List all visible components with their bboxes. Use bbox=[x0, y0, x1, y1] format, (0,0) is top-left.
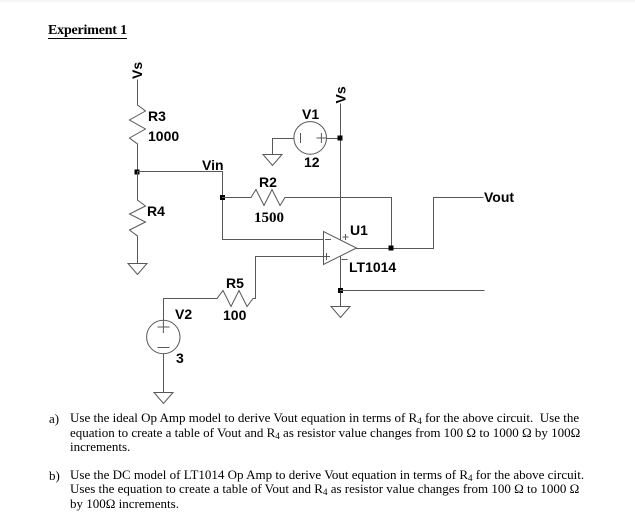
net label Vin bbox=[202, 157, 224, 173]
wire R5 left to V2 top bbox=[164, 299, 218, 321]
wire non-inverting input run bbox=[256, 257, 324, 299]
svg-text:U1: U1 bbox=[350, 222, 368, 238]
svg-text:Vs: Vs bbox=[129, 62, 145, 79]
value 1000 bbox=[148, 128, 179, 144]
wire Vs net vertical to op-amp V+ pin bbox=[340, 104, 342, 240]
svg-text:V1: V1 bbox=[302, 106, 319, 122]
resistor R5 bbox=[217, 291, 256, 307]
paragraph b) text bbox=[70, 468, 584, 511]
svg-text:Vs: Vs bbox=[333, 86, 349, 103]
net label Vs (right, rotated) bbox=[333, 86, 349, 103]
svg-text:R2: R2 bbox=[259, 174, 277, 190]
svg-text:100: 100 bbox=[223, 307, 247, 323]
node E junction dot bbox=[338, 288, 343, 293]
wire feedback down to output node bbox=[391, 198, 393, 249]
wire output up to Vout level bbox=[433, 198, 435, 249]
node D junction dot at output/feedback bbox=[389, 246, 394, 251]
op-amp V- pin marker bbox=[342, 259, 347, 261]
resistor R2 bbox=[251, 190, 285, 206]
ground below R4 bbox=[128, 264, 147, 275]
op-amp non-inverting input marker bbox=[324, 254, 330, 260]
ground below V2 bbox=[154, 393, 173, 404]
op-amp inverting input marker bbox=[326, 239, 331, 241]
paragraph a) text bbox=[70, 411, 580, 455]
svg-text:R5: R5 bbox=[226, 275, 244, 291]
resistor R3 bbox=[130, 105, 146, 144]
label R2 bbox=[259, 174, 277, 190]
wire op-amp V- pin to ground bbox=[340, 257, 342, 307]
wire ground net stub right bbox=[341, 290, 485, 292]
label R5 bbox=[226, 275, 244, 291]
node A junction dot bbox=[135, 170, 140, 175]
label R4 bbox=[147, 203, 165, 219]
wire R4 to ground bbox=[137, 236, 139, 264]
node C junction dot at V1 plus bbox=[338, 136, 343, 141]
ground below op-amp bbox=[331, 307, 350, 318]
wire V1 plus to Vs net bbox=[327, 138, 341, 140]
wire Vs to R3 top bbox=[137, 80, 139, 105]
wire node B to R2 left bbox=[223, 197, 252, 199]
value 12 bbox=[304, 154, 320, 170]
label V1 bbox=[302, 106, 319, 122]
label V2 bbox=[175, 306, 192, 322]
value 3 bbox=[176, 350, 184, 366]
svg-text:LT1014: LT1014 bbox=[349, 259, 396, 275]
wire Vin corner down to inverting input level bbox=[222, 172, 224, 240]
svg-text:3: 3 bbox=[176, 350, 184, 366]
resistor R4 bbox=[130, 200, 146, 236]
wire node A to Vin corner bbox=[138, 171, 223, 173]
wire node B down run to inverting input bbox=[223, 239, 324, 241]
wire R3 bottom to node A bbox=[137, 144, 139, 172]
label U1 bbox=[350, 222, 368, 238]
svg-text:1000: 1000 bbox=[148, 128, 179, 144]
wire R2 right to feedback corner bbox=[285, 197, 392, 199]
svg-text:Vin: Vin bbox=[202, 157, 224, 173]
voltage source V2 bbox=[147, 320, 180, 353]
paragraph b) marker bbox=[49, 468, 60, 484]
wire to Vout label bbox=[434, 197, 484, 199]
voltage source V1 bbox=[294, 122, 327, 155]
net label Vs (left, rotated) bbox=[129, 62, 145, 79]
wire V1 minus lead bbox=[273, 139, 295, 155]
wire op-amp output bbox=[357, 248, 434, 250]
op-amp V+ pin marker bbox=[343, 235, 348, 240]
wire node A down to R4 bbox=[137, 172, 139, 201]
net label Vout bbox=[484, 189, 514, 205]
op-amp U1 triangle bbox=[324, 232, 357, 265]
svg-text:1500: 1500 bbox=[254, 210, 284, 226]
value 100 bbox=[223, 307, 247, 323]
wire V2 bottom to ground bbox=[163, 354, 165, 393]
paragraph a) marker bbox=[49, 411, 59, 427]
svg-text:Vout: Vout bbox=[484, 189, 514, 205]
title Experiment 1 bbox=[48, 23, 127, 39]
label R3 bbox=[148, 108, 166, 124]
value 1500 bbox=[254, 210, 284, 226]
label LT1014 bbox=[349, 259, 396, 275]
ground at V1 minus bbox=[263, 155, 282, 166]
svg-text:V2: V2 bbox=[175, 306, 192, 322]
svg-text:R3: R3 bbox=[148, 108, 166, 124]
svg-text:R4: R4 bbox=[147, 203, 165, 219]
svg-text:12: 12 bbox=[304, 154, 320, 170]
node B junction dot bbox=[220, 195, 225, 200]
